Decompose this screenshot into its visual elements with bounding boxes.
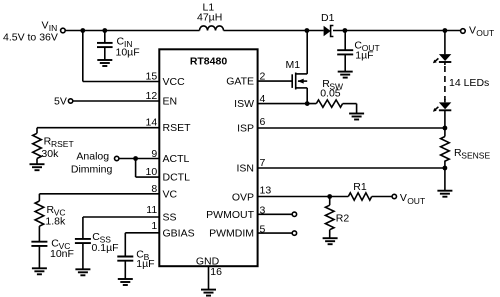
label RVC	[47, 204, 66, 218]
ground below CVC	[32, 268, 47, 274]
svg-text:VCC: VCC	[163, 76, 186, 88]
capacitor CB	[117, 257, 133, 279]
resistor RSW	[316, 100, 342, 107]
svg-text:ISN: ISN	[236, 163, 254, 175]
ground below RSW	[349, 114, 364, 120]
svg-text:RSET: RSET	[163, 122, 192, 134]
node VOUT sense terminal	[392, 194, 396, 198]
label RSET value	[44, 135, 74, 149]
svg-text:Analog: Analog	[76, 150, 109, 162]
svg-text:GBIAS: GBIAS	[163, 227, 195, 239]
pin 6 ISP wire	[258, 127, 445, 129]
svg-text:V: V	[400, 192, 407, 204]
junction dot M1 source ISW	[305, 101, 310, 106]
svg-text:5V: 5V	[54, 95, 67, 107]
node VOUT output terminal	[461, 29, 466, 34]
wire top rail segment VIN to L1	[65, 30, 199, 32]
pin 13 OVP wire	[258, 196, 349, 198]
svg-text:R1: R1	[353, 181, 367, 193]
svg-text:1µF: 1µF	[136, 258, 154, 270]
pin 4 ISW wire	[258, 103, 317, 105]
label CB	[136, 249, 149, 263]
resistor R2	[325, 197, 334, 230]
pin 1 GBIAS wire	[125, 233, 159, 257]
svg-text:0.1µF: 0.1µF	[92, 242, 119, 254]
svg-text:V: V	[42, 20, 49, 32]
junction dot CIN tap	[102, 28, 107, 33]
pin 15 VCC wire	[83, 31, 160, 82]
label Analog Dimming	[71, 150, 113, 175]
svg-text:PWMOUT: PWMOUT	[206, 209, 254, 221]
svg-text:DCTL: DCTL	[163, 172, 191, 184]
svg-text:OUT: OUT	[476, 28, 494, 38]
svg-text:D1: D1	[321, 12, 335, 24]
svg-text:EN: EN	[163, 96, 178, 108]
junction dot VCC tap	[80, 28, 85, 33]
transistor M1 NMOS	[292, 31, 307, 104]
ground below RSET	[30, 159, 45, 171]
pin 12 EN wire	[73, 100, 159, 102]
label RSENSE	[454, 147, 490, 161]
pin 9 ACTL wire	[119, 158, 159, 160]
svg-text:PWMDIM: PWMDIM	[209, 228, 254, 240]
wire RSW to ground	[343, 104, 357, 114]
pin 14 RSET wire	[37, 128, 159, 134]
op-amp IC U1 RT8480 body	[159, 49, 257, 266]
wire dashed LED string	[444, 62, 446, 102]
capacitor CVC	[31, 226, 47, 268]
junction dot ISN	[443, 166, 448, 171]
resistor RSET	[33, 133, 42, 158]
svg-text:13: 13	[260, 184, 272, 196]
svg-text:OVP: OVP	[232, 191, 254, 203]
node VIN input terminal	[61, 28, 66, 33]
svg-text:1µF: 1µF	[355, 49, 373, 61]
svg-text:7: 7	[260, 157, 266, 169]
ground below COUT	[338, 72, 353, 78]
svg-text:10nF: 10nF	[50, 248, 74, 260]
junction dot M1 drain tap	[305, 28, 310, 33]
wire RSENSE to ISN junction	[444, 161, 446, 191]
ground below RSENSE	[437, 191, 452, 197]
svg-text:14 LEDs: 14 LEDs	[449, 77, 489, 89]
svg-text:ISP: ISP	[237, 123, 254, 135]
LED D3 arrow	[433, 107, 439, 112]
svg-text:12: 12	[146, 90, 158, 102]
label RSW	[322, 78, 343, 91]
svg-text:Dimming: Dimming	[71, 164, 113, 176]
label VOUT lower	[400, 192, 425, 206]
svg-text:6: 6	[260, 116, 266, 128]
node PWMDIM terminal	[292, 231, 296, 235]
pin 7 ISN wire	[258, 167, 445, 169]
label VOUT top right	[469, 25, 494, 39]
svg-text:ACTL: ACTL	[163, 153, 190, 165]
svg-text:5: 5	[260, 223, 266, 235]
svg-text:14: 14	[146, 116, 158, 128]
svg-text:3: 3	[260, 205, 266, 217]
junction dot OVP divider	[327, 194, 332, 199]
wire LED2 to ISP junction	[444, 110, 446, 136]
svg-text:GATE: GATE	[226, 75, 254, 87]
node Analog Dimming terminal	[115, 156, 119, 160]
resistor RSENSE	[441, 137, 450, 162]
svg-text:V: V	[469, 25, 476, 37]
svg-text:47µH: 47µH	[197, 12, 222, 24]
svg-text:11: 11	[146, 204, 157, 216]
wire R1 to VOUT terminal	[372, 196, 392, 198]
svg-text:1.8k: 1.8k	[45, 216, 66, 228]
resistor R1	[348, 193, 371, 200]
resistor RVC	[35, 201, 44, 226]
svg-text:SS: SS	[163, 212, 177, 224]
wire VOUT rail to LED1	[444, 31, 446, 55]
svg-text:10: 10	[146, 166, 158, 178]
svg-text:0.05: 0.05	[320, 87, 341, 99]
capacitor CIN	[97, 31, 113, 60]
pin 16 GND stub	[208, 266, 210, 289]
svg-text:OUT: OUT	[407, 196, 425, 206]
ground below CIN	[97, 60, 112, 66]
svg-text:2: 2	[260, 70, 266, 82]
svg-text:4.5V to 36V: 4.5V to 36V	[3, 32, 58, 44]
svg-text:RT8480: RT8480	[190, 56, 228, 68]
pin 5 PWMDIM wire	[258, 232, 293, 234]
label CSS	[92, 231, 111, 245]
svg-text:16: 16	[210, 266, 222, 278]
svg-text:M1: M1	[286, 59, 301, 71]
diode D1 (Schottky)	[324, 26, 334, 37]
svg-text:SENSE: SENSE	[461, 151, 490, 161]
node 5V terminal	[68, 99, 72, 103]
pin 2 GATE wire	[258, 80, 292, 82]
ground below CB	[118, 279, 133, 285]
label COUT	[354, 40, 379, 54]
pin 11 SS wire	[83, 217, 159, 239]
svg-text:4: 4	[260, 93, 266, 105]
wire top rail segment L1 to D1	[224, 30, 324, 32]
inductor L1	[200, 26, 224, 31]
junction dot ISP	[443, 126, 448, 131]
svg-text:1: 1	[151, 220, 157, 232]
LED D2 top	[439, 54, 451, 62]
LED D2 arrow	[433, 58, 439, 63]
svg-text:ISW: ISW	[234, 98, 254, 110]
wire top rail segment D1 to VOUT	[333, 30, 461, 32]
pin 3 PWMOUT wire	[258, 213, 293, 215]
pin 8 VC wire	[39, 194, 159, 201]
ground below pin 16	[201, 290, 216, 296]
capacitor CSS	[75, 239, 91, 269]
capacitor COUT	[337, 31, 353, 72]
svg-text:10µF: 10µF	[116, 46, 140, 58]
svg-text:VC: VC	[163, 188, 178, 200]
label CIN	[117, 35, 133, 49]
ground below CSS	[75, 269, 90, 275]
pin 10 DCTL wire	[136, 159, 160, 178]
svg-text:8: 8	[151, 183, 157, 195]
label VIN	[42, 20, 58, 34]
svg-text:30k: 30k	[41, 148, 59, 160]
junction dot COUT tap	[343, 28, 348, 33]
ground below R2	[323, 230, 338, 245]
LED D3 bottom	[439, 102, 451, 110]
junction dot LED string tap	[443, 28, 448, 33]
junction dot ACTL DCTL	[133, 156, 138, 161]
label CVC	[51, 237, 70, 251]
node PWMOUT terminal	[292, 212, 296, 216]
svg-text:9: 9	[151, 148, 157, 160]
svg-text:15: 15	[146, 71, 158, 83]
svg-text:R2: R2	[336, 212, 350, 224]
